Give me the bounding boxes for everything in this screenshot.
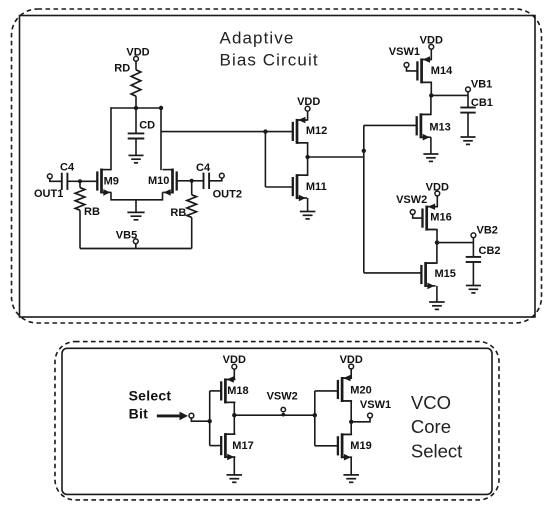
- wire node to CB1: [467, 95, 469, 107]
- wire M13 source to ground: [430, 137, 432, 154]
- node VDD (M18): [223, 354, 246, 369]
- capacitor CB2: [466, 257, 481, 262]
- svg-text:VSW2: VSW2: [396, 194, 427, 206]
- wire rail to M13 gate: [364, 124, 417, 126]
- wire common source to ground: [135, 200, 137, 213]
- svg-text:Select: Select: [129, 388, 172, 404]
- transistor M12: [293, 117, 307, 144]
- wire M10 source to common node: [136, 192, 163, 199]
- wire C4 to M9 gate node: [67, 180, 80, 182]
- svg-text:RD: RD: [114, 63, 130, 75]
- wire drain rail horizontal: [111, 107, 161, 109]
- svg-text:Bit: Bit: [129, 406, 149, 422]
- ground (M17): [227, 475, 243, 482]
- wire VDD to M12 source: [297, 111, 308, 120]
- junction VSW2 to right rail: [313, 413, 317, 417]
- ground (CB2): [466, 286, 481, 293]
- wire VB5 rail: [80, 248, 192, 250]
- wire M18 drain to VSW2 node: [225, 402, 234, 415]
- wire left inverter gate rail: [209, 391, 211, 446]
- wire M14 drain to VB1 node: [422, 82, 432, 95]
- wire RB left to VB5 rail: [79, 210, 81, 248]
- wire VB1 node horizontal: [431, 94, 468, 96]
- svg-text:VSW2: VSW2: [267, 390, 298, 402]
- wire M19 drain up: [342, 422, 351, 435]
- wire node to CB2: [472, 243, 474, 257]
- svg-text:M20: M20: [350, 384, 371, 396]
- wire right gate rail vertical: [363, 125, 365, 273]
- node VDD (RD branch): [126, 47, 149, 62]
- wire CD to ground: [135, 139, 137, 156]
- svg-text:VB1: VB1: [471, 78, 492, 90]
- junction gate rail: [263, 129, 267, 133]
- terminal VSW2: [410, 210, 422, 219]
- svg-text:C4: C4: [196, 162, 211, 174]
- wire M17 source to ground: [233, 457, 235, 475]
- svg-text:Core: Core: [411, 416, 451, 437]
- wire rail to M15 gate: [364, 272, 421, 274]
- wire C4 to OUT2: [209, 178, 222, 181]
- wire OUT1 to C4: [50, 179, 62, 182]
- wire CB2 to ground: [472, 262, 474, 286]
- junction M9 gate node: [78, 179, 82, 183]
- svg-text:VSW1: VSW1: [389, 46, 420, 58]
- terminal VSW1 (inverter output): [368, 413, 373, 418]
- wire VDD to M14 source: [422, 49, 432, 59]
- wire gate node to RB right: [191, 181, 193, 195]
- wire VSW2 horizontal: [234, 414, 314, 416]
- capacitor C4 (left): [62, 173, 68, 190]
- svg-text:VSW1: VSW1: [360, 399, 391, 411]
- wire M15 source to ground: [436, 286, 438, 302]
- wire right inverter gate rail: [314, 391, 316, 446]
- wire gate node to C4 right: [192, 180, 204, 182]
- wire VB2 node horizontal: [437, 242, 473, 244]
- ground (M15): [429, 302, 445, 309]
- junction VSW1 node: [349, 420, 353, 424]
- node VDD (M14): [420, 34, 443, 49]
- arrow Select Bit input: [157, 412, 188, 421]
- svg-text:M11: M11: [306, 181, 327, 193]
- wire M19 source to ground: [350, 457, 352, 475]
- svg-text:RB: RB: [84, 206, 100, 218]
- wire M11 drain to output node: [297, 157, 308, 175]
- svg-text:Bias Circuit: Bias Circuit: [220, 51, 319, 70]
- resistor RB (left): [75, 188, 85, 211]
- ground (M13): [423, 154, 438, 161]
- terminal Select Bit input: [189, 413, 210, 421]
- resistor RB (right): [187, 195, 197, 218]
- wire gate node to RB: [79, 181, 81, 187]
- transistor M14: [417, 56, 431, 83]
- wire M9 source to common node: [111, 192, 136, 199]
- ground (M19): [343, 475, 359, 482]
- ground (CD): [128, 155, 143, 162]
- wire VDD to M18 source: [225, 369, 234, 379]
- dashed border of VCO Core Select block: [55, 342, 499, 500]
- junction drain rail right: [159, 106, 163, 110]
- svg-text:M19: M19: [350, 440, 371, 452]
- wire M16 drain to VB2 node: [427, 230, 437, 243]
- svg-text:M17: M17: [232, 440, 253, 452]
- wire VDD to M20 source: [342, 369, 351, 378]
- ground (M11): [300, 212, 316, 219]
- terminal OUT1: [47, 174, 52, 179]
- svg-text:M10: M10: [148, 175, 169, 187]
- svg-text:Select: Select: [411, 440, 462, 461]
- transistor M15: [421, 262, 435, 289]
- svg-text:M15: M15: [435, 268, 456, 280]
- node VDD (M16): [426, 182, 449, 196]
- terminal VB1: [466, 87, 471, 95]
- junction VB2 node: [435, 240, 439, 244]
- svg-text:CB2: CB2: [479, 245, 501, 257]
- transistor M19: [315, 433, 352, 460]
- svg-text:C4: C4: [60, 162, 75, 174]
- svg-text:Adaptive: Adaptive: [220, 29, 295, 48]
- wire VSW1 node to terminal: [351, 418, 370, 422]
- wire RB right to VB5 rail: [191, 217, 193, 248]
- terminal VB2: [471, 233, 476, 243]
- node VDD (M12): [297, 96, 320, 111]
- svg-text:OUT2: OUT2: [213, 188, 242, 200]
- wire CB1 to ground: [467, 113, 469, 137]
- wire VDD to M16 source: [427, 196, 438, 207]
- solid border of VCO Core Select block: [62, 348, 492, 494]
- junction input to gate rail: [208, 419, 212, 423]
- capacitor CB1: [460, 108, 475, 113]
- junction M12/M11 drains: [305, 155, 309, 159]
- wire M10 drain vertical: [160, 107, 162, 170]
- resistor RD: [131, 70, 141, 96]
- transistor M11: [265, 174, 307, 201]
- svg-text:M18: M18: [227, 385, 248, 397]
- ground (CB1): [460, 137, 475, 144]
- terminal VSW2 (inverter output): [281, 407, 285, 416]
- junction M10 gate node: [190, 179, 194, 183]
- wire rail to CD: [135, 108, 137, 133]
- title VCO Core Select: [411, 392, 462, 461]
- terminal VB5: [133, 239, 138, 249]
- ground (M9 M10 common source): [127, 212, 144, 219]
- wire M17 drain up: [225, 415, 234, 434]
- dashed border of Adaptive Bias Circuit block: [12, 9, 542, 323]
- svg-text:RB: RB: [170, 207, 186, 219]
- transistor M20: [315, 375, 352, 402]
- capacitor C4 (right): [204, 173, 210, 189]
- wire M10-drain node to M12 gate: [161, 131, 293, 133]
- wire M9 drain vertical: [110, 107, 112, 170]
- wire M11 source to ground: [307, 198, 309, 212]
- transistor M16: [423, 204, 437, 231]
- solid border of Adaptive Bias Circuit block: [20, 16, 536, 318]
- wire M15 drain up: [426, 243, 437, 264]
- wire output node to right rail: [308, 156, 364, 158]
- wire M13 drain up: [421, 95, 431, 114]
- junction right rail: [362, 149, 366, 153]
- svg-text:M16: M16: [430, 212, 451, 224]
- wire VDD to RD: [135, 61, 137, 70]
- wire RD to drain rail: [135, 96, 137, 108]
- svg-text:VCO: VCO: [411, 392, 451, 413]
- svg-text:M13: M13: [429, 122, 450, 134]
- label Select Bit: [129, 388, 172, 422]
- wire M20 drain to VSW1 node: [342, 401, 351, 422]
- svg-text:VB5: VB5: [116, 230, 137, 242]
- wire gate rail M12-M11: [264, 132, 266, 187]
- junction VSW2 node left: [232, 413, 236, 417]
- transistor M18: [210, 376, 236, 403]
- transistor M13: [417, 113, 431, 140]
- transistor M17: [210, 433, 236, 460]
- node VDD (M20): [340, 354, 363, 369]
- transistor M9: [80, 169, 112, 196]
- svg-text:CD: CD: [139, 119, 155, 131]
- svg-text:VB2: VB2: [477, 224, 498, 236]
- terminal VSW1: [404, 63, 417, 71]
- junction VB1 node: [429, 93, 433, 97]
- svg-text:M9: M9: [104, 175, 119, 187]
- title Adaptive Bias Circuit: [220, 29, 319, 70]
- transistor M10: [163, 169, 192, 196]
- svg-text:OUT1: OUT1: [34, 188, 63, 200]
- wire M12 drain to output node: [297, 143, 308, 157]
- terminal OUT2: [219, 173, 224, 178]
- svg-text:M14: M14: [431, 65, 453, 77]
- capacitor CD: [128, 133, 145, 138]
- svg-text:CB1: CB1: [471, 97, 493, 109]
- junction drain rail center: [134, 106, 138, 110]
- svg-text:M12: M12: [306, 125, 327, 137]
